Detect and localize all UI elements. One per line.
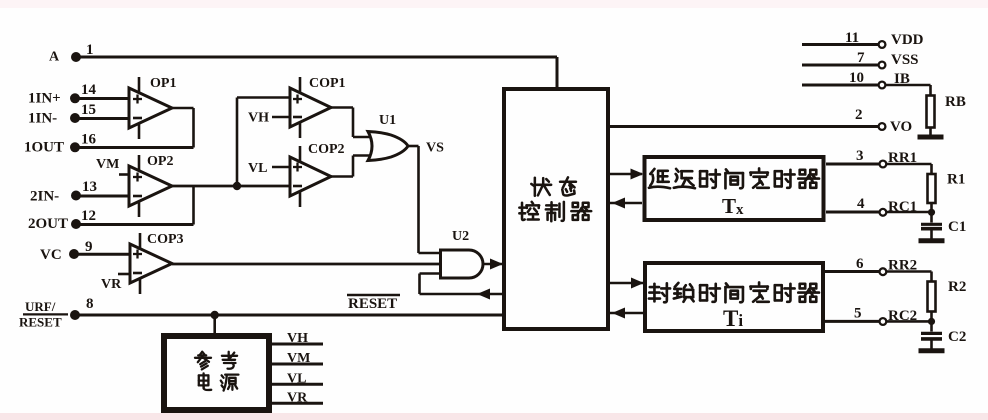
svg-text:16: 16	[81, 132, 97, 148]
svg-text:A: A	[49, 50, 60, 65]
svg-text:COP2: COP2	[308, 142, 345, 157]
svg-text:VS: VS	[426, 141, 444, 156]
svg-text:VR: VR	[287, 390, 308, 405]
svg-text:VC: VC	[40, 247, 62, 263]
svg-text:7: 7	[857, 50, 865, 66]
svg-text:14: 14	[81, 82, 97, 98]
svg-text:RESET: RESET	[348, 296, 397, 312]
svg-text:VL: VL	[287, 371, 306, 386]
svg-text:VM: VM	[96, 157, 119, 172]
svg-text:2IN-: 2IN-	[30, 189, 59, 205]
svg-text:OP1: OP1	[150, 76, 176, 91]
svg-text:12: 12	[81, 208, 96, 224]
svg-text:1IN+: 1IN+	[28, 91, 61, 107]
svg-text:15: 15	[81, 102, 96, 118]
svg-text:6: 6	[856, 256, 864, 272]
svg-text:10: 10	[849, 70, 864, 86]
svg-text:1OUT: 1OUT	[24, 140, 64, 156]
svg-text:8: 8	[86, 296, 94, 312]
svg-text:2: 2	[855, 107, 863, 123]
svg-text:1IN-: 1IN-	[28, 111, 57, 127]
svg-text:R1: R1	[947, 172, 965, 188]
svg-text:C2: C2	[948, 329, 966, 345]
svg-text:VL: VL	[248, 161, 267, 176]
svg-text:URF/: URF/	[25, 299, 56, 314]
svg-text:4: 4	[857, 196, 865, 212]
svg-text:Tx: Tx	[722, 194, 744, 218]
svg-text:RB: RB	[945, 94, 966, 110]
svg-text:11: 11	[845, 30, 859, 46]
svg-text:COP3: COP3	[147, 232, 184, 247]
svg-text:Ti: Ti	[723, 306, 743, 331]
svg-text:13: 13	[82, 179, 97, 195]
svg-text:VDD: VDD	[891, 32, 924, 48]
svg-text:VO: VO	[890, 119, 912, 135]
svg-text:U1: U1	[379, 113, 396, 128]
svg-text:VH: VH	[248, 111, 269, 126]
svg-text:3: 3	[856, 148, 864, 164]
svg-text:5: 5	[854, 306, 862, 322]
svg-text:VM: VM	[287, 351, 310, 366]
svg-text:C1: C1	[948, 219, 966, 235]
svg-text:VH: VH	[287, 331, 308, 346]
svg-text:R2: R2	[948, 279, 966, 295]
svg-text:COP1: COP1	[309, 76, 346, 91]
svg-text:VSS: VSS	[891, 52, 919, 68]
svg-text:VR: VR	[101, 277, 122, 292]
svg-text:OP2: OP2	[147, 154, 173, 169]
svg-text:RESET: RESET	[19, 315, 62, 330]
svg-text:U2: U2	[452, 229, 469, 244]
svg-text:2OUT: 2OUT	[28, 216, 68, 232]
svg-text:9: 9	[85, 239, 93, 255]
